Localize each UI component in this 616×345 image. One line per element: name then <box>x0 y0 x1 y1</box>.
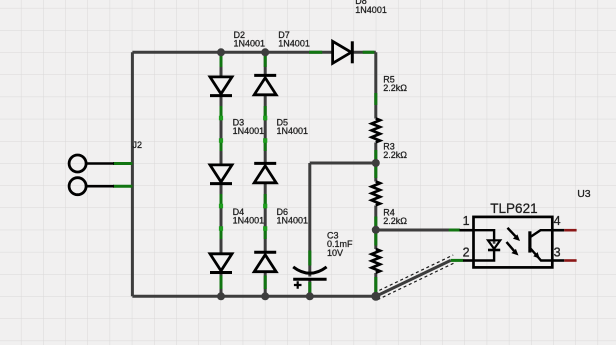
pin number 4 <box>554 214 561 228</box>
pin tip markers column 1 <box>219 116 223 231</box>
label D2 1N4001 <box>234 30 266 48</box>
wire R4 to bottom junction <box>374 273 377 296</box>
wire diagonal bottom junction to U3 pin 2 <box>376 260 451 296</box>
label D6 1N4001 <box>277 207 309 225</box>
svg-text:1N4001: 1N4001 <box>277 126 309 136</box>
pin green stub U3 pin 2 <box>451 259 464 262</box>
label J2 <box>133 140 143 150</box>
pin number 2 <box>463 246 470 260</box>
diode D8 <box>333 41 353 63</box>
wire ticks into diode bodies <box>221 52 494 271</box>
label D3 1N4001 <box>233 118 265 136</box>
svg-text:2: 2 <box>463 246 470 260</box>
wire diode column 2 vertical <box>264 52 267 296</box>
junction node bottom rail D6 <box>261 292 269 300</box>
capacitor C3 <box>293 267 326 289</box>
U3 pin 4 lead <box>552 229 576 232</box>
wire top rail <box>132 51 332 54</box>
wire C3 top vertical <box>308 163 311 277</box>
junction node bottom rail R4/diagonal <box>371 292 380 301</box>
svg-text:TLP621: TLP621 <box>490 201 537 216</box>
label D7 1N4001 <box>278 30 310 48</box>
label D4 1N4001 <box>233 207 265 225</box>
wire D8 cathode to corner and down to R5 <box>351 52 376 118</box>
pin green stubs column 1 <box>220 56 223 289</box>
svg-text:2.2kΩ: 2.2kΩ <box>383 83 407 93</box>
resistor R3 <box>372 182 380 206</box>
pin green stubs D8 <box>309 51 374 54</box>
junction node top rail D7 <box>261 48 269 56</box>
U3 pin 3 lead <box>552 259 576 262</box>
wire R5 to R3 <box>374 143 377 182</box>
svg-text:1N4001: 1N4001 <box>233 126 265 136</box>
diode D3 <box>210 165 232 184</box>
U3 phototransistor <box>529 230 552 260</box>
pin number 3 <box>554 246 561 260</box>
diode D6 <box>254 252 276 271</box>
U3 pin 1 lead <box>460 229 474 232</box>
svg-text:1N4001: 1N4001 <box>277 215 309 225</box>
svg-text:2.2kΩ: 2.2kΩ <box>383 216 407 226</box>
junction node bottom rail D4 <box>217 292 225 300</box>
wire C3 bottom <box>308 279 311 296</box>
pin number 1 <box>463 214 470 228</box>
wire bottom rail <box>132 295 375 298</box>
label TLP621 <box>490 201 537 216</box>
svg-text:3: 3 <box>554 246 561 260</box>
label D5 1N4001 <box>277 118 309 136</box>
dashed marker lower of diagonal wire <box>378 262 457 300</box>
dashed marker upper of diagonal wire <box>374 255 453 293</box>
junction node bottom rail C3 <box>306 292 314 300</box>
svg-text:1N4001: 1N4001 <box>278 38 310 48</box>
svg-text:1N4001: 1N4001 <box>355 5 387 15</box>
diode D7 <box>254 75 276 94</box>
wire R3 to R4 <box>374 206 377 250</box>
U3 light arrow 1 <box>508 228 521 241</box>
pin green stubs C3 <box>308 251 311 295</box>
junction node top rail D2 <box>217 48 225 56</box>
connector J2 <box>69 155 114 195</box>
resistor R5 <box>372 119 380 143</box>
U3 light arrow 2 <box>507 242 519 256</box>
junction node R5-R3 / C3 branch <box>372 159 380 167</box>
svg-text:10V: 10V <box>327 248 343 258</box>
pin green stub U3 pin 1 <box>449 229 460 232</box>
diode D2 <box>210 77 232 96</box>
label R3 2.2k <box>383 141 407 160</box>
junction node R3-R4 / pin1 branch <box>372 226 380 234</box>
svg-text:2.2kΩ: 2.2kΩ <box>383 150 407 160</box>
U3 pin 2 lead <box>463 259 474 262</box>
label C3 0.1mF 10V <box>327 230 353 257</box>
op-amp U3 TLP621 box <box>474 217 553 268</box>
pin green stubs J2 <box>113 164 132 187</box>
label R5 2.2k <box>383 74 407 93</box>
pin green stubs resistor chain <box>374 93 377 293</box>
pin tip markers column 2 <box>263 116 267 231</box>
resistor R4 <box>372 249 380 273</box>
svg-text:1: 1 <box>463 214 470 228</box>
diode D5 <box>254 163 276 182</box>
diode D4 <box>210 254 232 273</box>
svg-text:U3: U3 <box>577 188 591 200</box>
wire left vertical <box>131 52 134 296</box>
label R4 2.2k <box>383 208 407 227</box>
label U3 <box>577 188 591 200</box>
wire diode column 1 vertical <box>220 52 223 296</box>
svg-text:1N4001: 1N4001 <box>234 38 266 48</box>
U3 internal LED <box>474 230 501 260</box>
wire node to C3 horizontal <box>310 162 376 165</box>
svg-text:4: 4 <box>554 214 561 228</box>
svg-text:1N4001: 1N4001 <box>233 215 265 225</box>
pin green stubs column 2 <box>264 56 267 289</box>
svg-text:J2: J2 <box>133 140 143 150</box>
label D8 1N4001 <box>355 0 387 15</box>
wire R3-R4 node to U3 pin 1 <box>376 229 450 232</box>
